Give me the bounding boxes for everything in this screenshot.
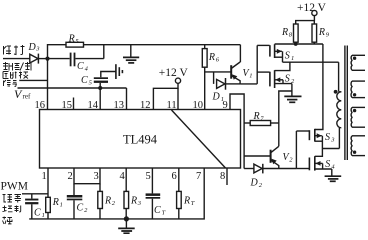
wire: R5 right to C4 drop <box>84 45 104 59</box>
svg-text:6: 6 <box>216 57 220 64</box>
svg-text:14: 14 <box>88 100 99 111</box>
resistor R7 <box>244 111 279 126</box>
wire: top rail from C4 node to V1 collector corner <box>104 44 241 46</box>
wire: C5 top to side ground <box>101 72 116 78</box>
svg-text:11: 11 <box>167 100 177 111</box>
svg-text:R: R <box>52 197 59 208</box>
svg-text:5: 5 <box>89 80 93 87</box>
MOSFET S4 <box>309 156 335 170</box>
svg-text:R: R <box>253 111 260 122</box>
svg-text:S: S <box>285 51 290 62</box>
wire: S1 source line to transformer <box>283 61 339 63</box>
wire: S3S4 gate bus <box>296 131 309 169</box>
capacitor C4 <box>70 53 104 73</box>
resistor R2 <box>98 191 116 219</box>
ground (S4 source) <box>325 176 342 181</box>
wire: S2 drain step up <box>275 62 290 70</box>
pin 15 stub <box>73 98 75 110</box>
svg-text:7: 7 <box>196 171 201 182</box>
svg-text:S: S <box>285 74 290 85</box>
node: C5/pin14 junction dot <box>98 86 102 90</box>
svg-text:16: 16 <box>35 100 46 111</box>
resistor RT <box>177 191 195 219</box>
svg-text:6: 6 <box>172 171 177 182</box>
svg-text:2: 2 <box>68 171 73 182</box>
svg-text:3: 3 <box>137 200 142 207</box>
text 压切换 (line2) <box>3 72 28 79</box>
diode D3 <box>28 42 46 64</box>
svg-text:12: 12 <box>140 100 151 111</box>
svg-text:T: T <box>191 200 195 207</box>
wire: pin 11 riser <box>177 88 179 109</box>
wire: S2 source down <box>291 84 293 96</box>
text Vref <box>14 87 31 101</box>
svg-text:8: 8 <box>289 32 293 39</box>
svg-text:1: 1 <box>42 171 47 182</box>
svg-text:8: 8 <box>220 171 225 182</box>
MOSFET S3 <box>309 129 335 149</box>
svg-text:2: 2 <box>112 200 116 207</box>
svg-text:2: 2 <box>259 182 263 189</box>
svg-text:C: C <box>77 61 84 72</box>
svg-text:10: 10 <box>193 100 204 111</box>
svg-text:ref: ref <box>23 93 31 101</box>
node A junction dot (pin16 net) <box>45 57 49 61</box>
svg-text:R: R <box>130 196 137 207</box>
svg-text:R: R <box>281 27 288 38</box>
ground (sideways, right of C5) <box>116 64 123 79</box>
svg-text:2: 2 <box>289 157 293 164</box>
pin 8 stub <box>226 168 228 185</box>
wire: S1S2 gate bus <box>257 45 269 84</box>
wire: pin 3 to R2 <box>99 184 101 192</box>
transformer T primary lead from S1 source <box>338 62 340 91</box>
text 控制 (line2) <box>3 206 21 213</box>
svg-text:1: 1 <box>60 202 63 209</box>
wire: ground branch to R7/V2 collector <box>279 91 292 146</box>
wire: base line to V1 <box>205 71 232 73</box>
wire: pin 9 up and over <box>230 94 244 169</box>
transformer T primary winding <box>337 92 342 149</box>
resistor R3 <box>124 191 142 219</box>
transformer T secondary winding 2 <box>351 81 365 98</box>
resistor R1 <box>46 197 63 219</box>
transistor V2 <box>271 146 294 168</box>
wire: PWM input <box>22 193 48 195</box>
wire: V1 collector to top rail <box>239 45 241 63</box>
wire: pin 4 to R3 <box>125 168 127 191</box>
text 调整 (line1) <box>3 195 22 203</box>
wire: Vref line <box>18 87 127 89</box>
svg-text:C: C <box>34 208 41 219</box>
svg-text:D: D <box>250 178 259 189</box>
svg-text:15: 15 <box>62 100 73 111</box>
svg-text:4: 4 <box>120 171 126 182</box>
ground (bottom rail) <box>118 219 135 233</box>
svg-text:C: C <box>81 75 88 86</box>
transformer T core <box>345 46 347 161</box>
svg-text:PWM: PWM <box>1 181 28 193</box>
capacitor C2 <box>67 195 88 219</box>
wire: pin2-pin3 loop <box>74 168 100 184</box>
svg-text:3: 3 <box>94 171 99 182</box>
wire: junction to C4 <box>48 58 70 60</box>
wire: D1 anode drop <box>213 72 215 84</box>
svg-text:R: R <box>104 196 111 207</box>
svg-text:1: 1 <box>291 55 294 62</box>
svg-text:S: S <box>325 132 330 143</box>
diode D1 <box>212 78 241 103</box>
resistor R9 <box>312 21 330 44</box>
MOSFET S2 <box>270 70 295 88</box>
svg-text:D: D <box>28 42 37 53</box>
capacitor CT <box>146 193 166 219</box>
text 稳流/稳 (line1) <box>3 62 31 71</box>
wire: bottom ground rail to pin 7 <box>29 168 204 219</box>
svg-text:R: R <box>68 34 75 45</box>
svg-text:3: 3 <box>330 136 335 143</box>
wire: +12 to R8 R9 tops <box>296 16 315 24</box>
svg-text:R: R <box>208 52 215 63</box>
capacitor C1 <box>25 194 45 219</box>
IC U1 TL494 body <box>40 110 241 169</box>
svg-text:1: 1 <box>42 212 45 219</box>
wire: +12V to pins 11,12 <box>153 83 178 109</box>
svg-text:1: 1 <box>221 96 224 103</box>
node: ground rail junction dot <box>124 216 129 221</box>
wire: pin 6 to RT <box>178 168 180 191</box>
wire: S3 source node line <box>322 148 339 150</box>
transformer T secondary winding 3 <box>351 107 365 127</box>
text 保护 (protection) <box>4 45 25 55</box>
wire: S1 drain to +12 rail <box>275 43 323 45</box>
svg-text:3: 3 <box>35 45 40 52</box>
wire: switch signal line to pin16 net <box>19 79 47 81</box>
transformer T secondary winding 4 <box>351 136 365 156</box>
svg-text:T: T <box>162 210 166 217</box>
svg-text:S: S <box>325 159 330 170</box>
MOSFET S1 <box>270 44 294 62</box>
transformer T secondary winding 1 <box>351 55 365 70</box>
svg-text:C: C <box>77 203 84 214</box>
svg-text:R: R <box>183 196 190 207</box>
transistor V1 <box>231 62 252 84</box>
wire: pin 1 drop <box>47 168 49 197</box>
node: primary polarity dot <box>334 90 338 94</box>
svg-text:1: 1 <box>249 73 252 80</box>
resistor R8 <box>281 24 298 44</box>
wire: pin 16 vertical <box>47 59 49 110</box>
svg-text:R: R <box>318 27 325 38</box>
resistor R5 <box>66 34 84 48</box>
text 端 (line3) <box>3 217 13 225</box>
wire: emitter node to S1S2 gate bus <box>240 83 257 85</box>
svg-text:4: 4 <box>85 66 89 73</box>
resistor R6 <box>202 45 219 67</box>
wire: S4 drain step up <box>315 149 323 157</box>
wire: S4 source down <box>331 169 333 176</box>
text 信号 (line3) <box>4 80 18 86</box>
wire: pin 13 riser <box>126 88 128 110</box>
diode D2 <box>244 164 296 189</box>
svg-text:5: 5 <box>146 171 151 182</box>
node: R8 rail junction dot <box>294 42 298 46</box>
svg-text:+12 V: +12 V <box>159 67 189 79</box>
wire: R6 to pin 10 <box>204 67 206 109</box>
+12V supply terminal (middle) <box>159 67 189 83</box>
svg-text:D: D <box>212 92 221 103</box>
wire: protection input to D3 <box>3 58 30 60</box>
wire: rail corner down to S3 drain <box>315 44 323 130</box>
ground (top middle) <box>123 45 139 63</box>
wire: pin 2 to C2 <box>73 184 75 195</box>
+12V supply terminal (top) <box>297 2 327 16</box>
svg-text:2: 2 <box>84 207 88 214</box>
capacitor C5 <box>81 75 108 88</box>
svg-text:C: C <box>154 205 161 216</box>
svg-text:9: 9 <box>326 32 330 39</box>
wire: pin 5 to CT <box>151 168 153 193</box>
wire: pin 14 riser <box>99 88 101 110</box>
svg-text:TL494: TL494 <box>123 133 158 147</box>
ground (S2 source) <box>284 96 301 102</box>
wire: junction up to R5 rail <box>48 45 67 59</box>
wire: V2 base line <box>244 155 271 157</box>
svg-text:13: 13 <box>114 100 125 111</box>
